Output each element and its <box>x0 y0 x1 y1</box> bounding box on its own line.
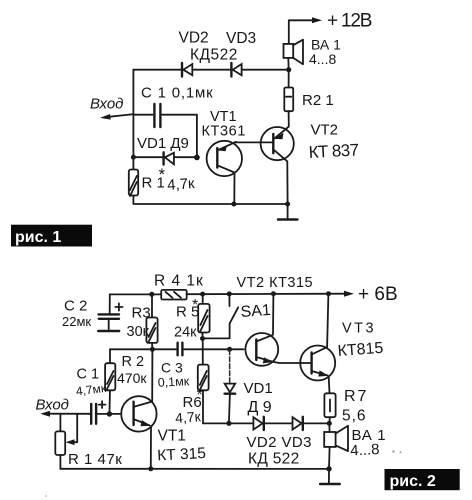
svg-text:VD2: VD2 <box>179 30 209 47</box>
svg-text:VD1 Д9: VD1 Д9 <box>137 135 189 152</box>
svg-text:КТ815: КТ815 <box>337 340 384 360</box>
svg-text:КД 522: КД 522 <box>248 451 300 468</box>
svg-text:R 2: R 2 <box>122 354 145 370</box>
svg-text:4,7мк: 4,7мк <box>75 381 107 399</box>
svg-text:+ 12В: + 12В <box>327 11 372 32</box>
svg-text:VD2 VD3: VD2 VD3 <box>247 434 312 451</box>
svg-text:R3: R3 <box>132 305 151 322</box>
svg-text:4,7к: 4,7к <box>167 175 196 194</box>
svg-text:24к: 24к <box>174 324 197 340</box>
svg-text:VT2 КТ315: VT2 КТ315 <box>237 275 314 291</box>
svg-text:КД522: КД522 <box>190 47 238 64</box>
svg-text:VT2: VT2 <box>311 122 339 139</box>
svg-text:R7: R7 <box>344 388 368 405</box>
svg-text:+ 6В: + 6В <box>358 284 398 305</box>
svg-text:рис. 1: рис. 1 <box>15 229 61 246</box>
svg-text:*: * <box>159 165 166 184</box>
svg-text:КТ 315: КТ 315 <box>157 445 206 465</box>
svg-text:*: * <box>197 387 203 404</box>
svg-text:С 3: С 3 <box>161 360 183 376</box>
svg-text:SA1: SA1 <box>240 302 271 321</box>
svg-text:R 4 1к: R 4 1к <box>154 273 204 290</box>
svg-text:Вход: Вход <box>90 96 123 113</box>
svg-text:VD1: VD1 <box>244 380 273 397</box>
svg-text:30к: 30к <box>127 324 150 340</box>
svg-text:КТ 837: КТ 837 <box>308 140 359 162</box>
svg-text:4,7к: 4,7к <box>175 408 203 426</box>
svg-text:22мк: 22мк <box>62 314 91 329</box>
svg-text:0,1мк: 0,1мк <box>157 374 190 390</box>
svg-text:рис. 2: рис. 2 <box>390 473 436 490</box>
svg-text:С 1: С 1 <box>77 366 100 382</box>
svg-text:R 1 47к: R 1 47к <box>68 451 122 468</box>
svg-text:5,6: 5,6 <box>342 408 367 425</box>
svg-text:4...8: 4...8 <box>309 51 336 67</box>
svg-text:*: * <box>192 297 198 314</box>
svg-text:Д 9: Д 9 <box>248 399 272 416</box>
svg-text:4...8: 4...8 <box>350 441 380 460</box>
svg-text:КТ361: КТ361 <box>202 124 247 140</box>
svg-text:Вход: Вход <box>36 397 69 414</box>
svg-text:С 1 0,1мк: С 1 0,1мк <box>141 85 213 102</box>
svg-text:R2 1: R2 1 <box>302 92 334 109</box>
svg-text:VT3: VT3 <box>342 321 376 337</box>
svg-text:470к: 470к <box>117 370 147 386</box>
svg-text:VD3: VD3 <box>226 30 256 47</box>
svg-text:VT1: VT1 <box>158 428 186 445</box>
svg-text:С 2: С 2 <box>64 298 87 315</box>
